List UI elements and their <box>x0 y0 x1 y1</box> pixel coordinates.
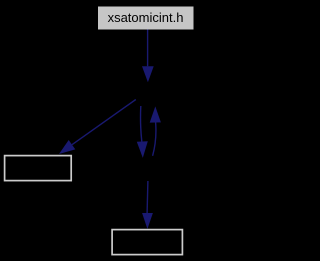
svg-text:xsatomicint.h: xsatomicint.h <box>108 10 184 25</box>
edge hidden node B -> bottom box : wire <box>146 181 149 213</box>
edge hidden node A -> left box : wire <box>72 100 136 145</box>
edge hidden node A -> left box : arrowhead <box>59 140 75 154</box>
edge hidden node A -> hidden node B (down) : wire <box>141 106 142 142</box>
edge xsatomicint.h -> hidden node A : arrowhead <box>142 66 154 82</box>
edge hidden node B -> hidden node A (up, cycle) : arrowhead <box>150 106 161 122</box>
edge xsatomicint.h -> hidden node A : wire <box>147 30 149 67</box>
node xsatomicint.h (current file, gray box) <box>98 7 194 30</box>
edge hidden node B -> hidden node A (up, cycle) : wire <box>153 122 156 155</box>
edge hidden node A -> hidden node B (down) : arrowhead <box>137 141 148 158</box>
node bottom box (black node, outlined) <box>112 230 182 255</box>
edge hidden node B -> bottom box : arrowhead <box>142 213 153 229</box>
node left box (black node, outlined) <box>5 156 72 181</box>
